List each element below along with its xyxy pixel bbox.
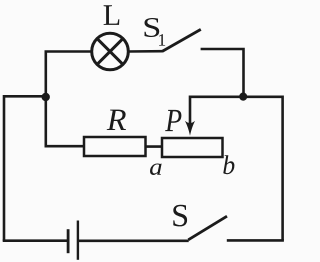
wire junction row: wiper corner to right corner: [190, 96, 283, 99]
wire bottom-right to switch S: [227, 239, 284, 242]
battery cell: short negative plate: [67, 229, 70, 253]
wire lamp to switch S1 pivot: [128, 50, 163, 53]
junction node A (left): [42, 93, 50, 101]
rheostat P box: [162, 138, 223, 157]
label R: [107, 110, 126, 130]
wire right outer vertical: [281, 96, 284, 241]
switch S1 blade: [162, 29, 201, 51]
label S1: [145, 18, 160, 37]
label S: [173, 205, 187, 227]
label L: [104, 5, 120, 25]
wire bottom-left to battery: [3, 239, 67, 242]
wire left outer vertical: [3, 95, 6, 241]
label P: [165, 110, 181, 131]
label a: [150, 164, 162, 176]
wire top-left run: lamp to left corner down to resistor row: [46, 52, 92, 147]
rheostat wiper arrow: [185, 96, 195, 136]
wire battery to switch S pivot: [79, 240, 189, 243]
resistor R box: [84, 137, 146, 156]
switch S blade: [188, 216, 227, 240]
lamp L symbol: [92, 33, 129, 70]
battery cell: long positive plate: [77, 221, 79, 260]
junction node B (right): [239, 93, 247, 101]
wire S1 fixed contact to corner and down to junction B: [201, 49, 244, 97]
wire resistor R to rheostat P: [145, 145, 163, 148]
label b: [223, 155, 234, 174]
wire left stub from outer loop to junction A: [4, 95, 46, 98]
